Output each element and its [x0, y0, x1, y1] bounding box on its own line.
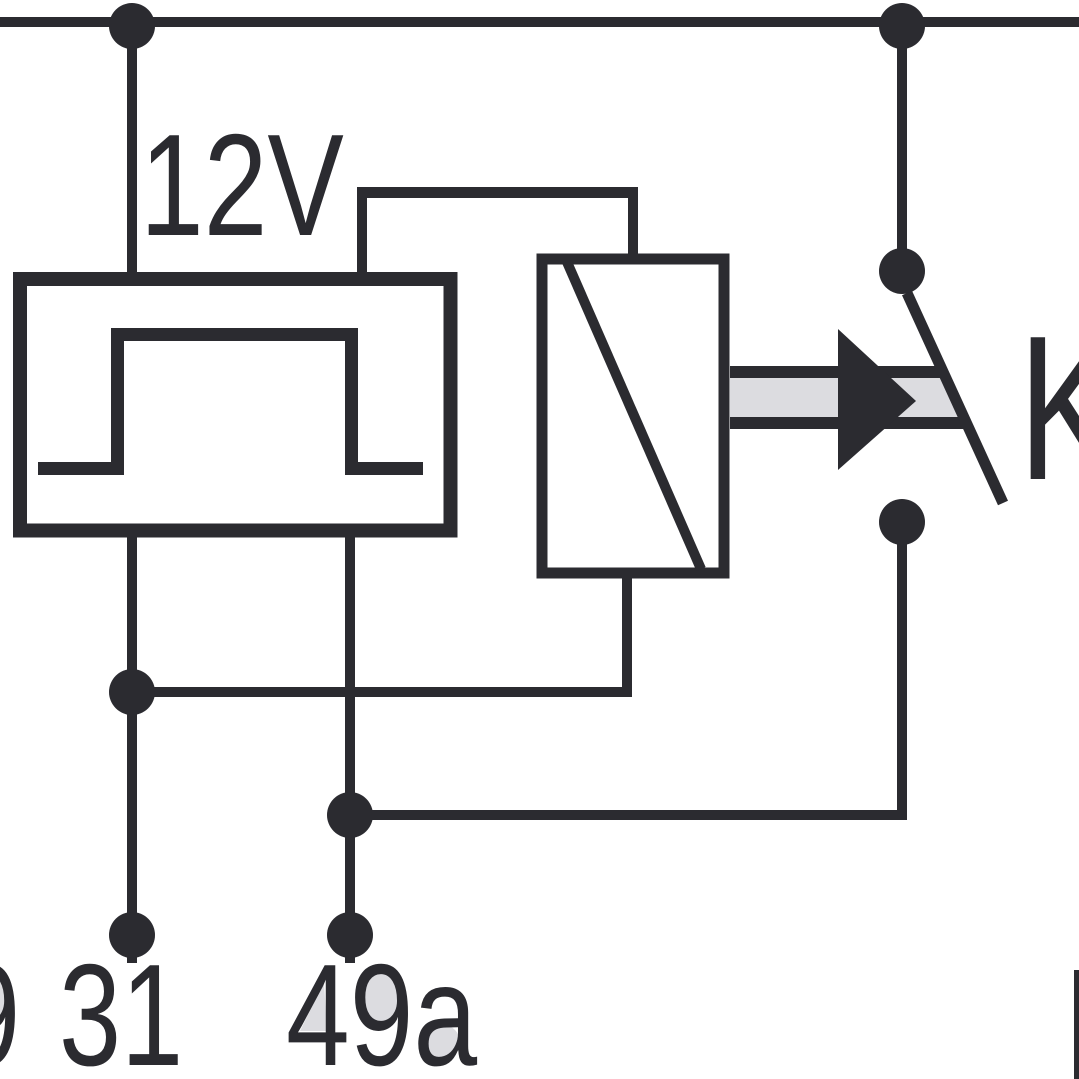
contact: lower fixed contact of K	[879, 499, 925, 545]
wire: flasher bottom-left down to terminal 31	[127, 530, 137, 963]
wire: flasher top to relay coil (up, right, down)	[357, 187, 638, 279]
node: rail junction to contact K	[879, 3, 925, 49]
grey counter fills of 4, 9, a glyphs	[0, 971, 460, 1059]
terminal dot 31	[109, 912, 155, 958]
wire: rail down to flasher unit top	[127, 26, 137, 278]
terminal dot 49a	[327, 912, 373, 958]
svg-text:49a: 49a	[286, 934, 477, 1079]
wire: flasher bottom-right down to terminal 49a	[345, 530, 355, 963]
actuation linkage shaft (grey) from coil to contact blade	[730, 366, 969, 429]
wire: horizontal 49a bus to contact lower pole	[350, 810, 907, 820]
svg-text:31: 31	[59, 935, 183, 1079]
wire: rail down to upper contact	[897, 26, 907, 271]
label: 12V	[140, 104, 344, 266]
bimetal / heater strip symbol inside flasher	[38, 328, 423, 475]
contact blade K (switch arm)	[907, 293, 1003, 503]
wire: horizontal bus y=692 from node 31 to coil	[127, 687, 632, 697]
contact: upper fixed contact of K	[879, 248, 925, 294]
coil diagonal stroke	[567, 262, 701, 569]
node: junction at 31 branch	[109, 669, 155, 715]
relay coil K1	[542, 259, 724, 573]
node: rail junction to flasher unit	[109, 3, 155, 49]
svg-text:K: K	[1018, 292, 1079, 523]
svg-text:49: 49	[0, 935, 20, 1079]
cut-off glyph stem at right edge	[1074, 970, 1079, 1079]
flasher unit F1 (hot-wire flasher housing)	[20, 279, 451, 531]
wire: coil bottom down to ground bus	[622, 573, 632, 697]
actuation arrowhead	[838, 329, 916, 470]
wire: +12V supply top rail	[0, 17, 1079, 27]
wire: contact lower pole up to lower contact dot	[897, 522, 907, 815]
node: junction at 49a branch	[327, 792, 373, 838]
svg-text:12V: 12V	[140, 104, 344, 266]
